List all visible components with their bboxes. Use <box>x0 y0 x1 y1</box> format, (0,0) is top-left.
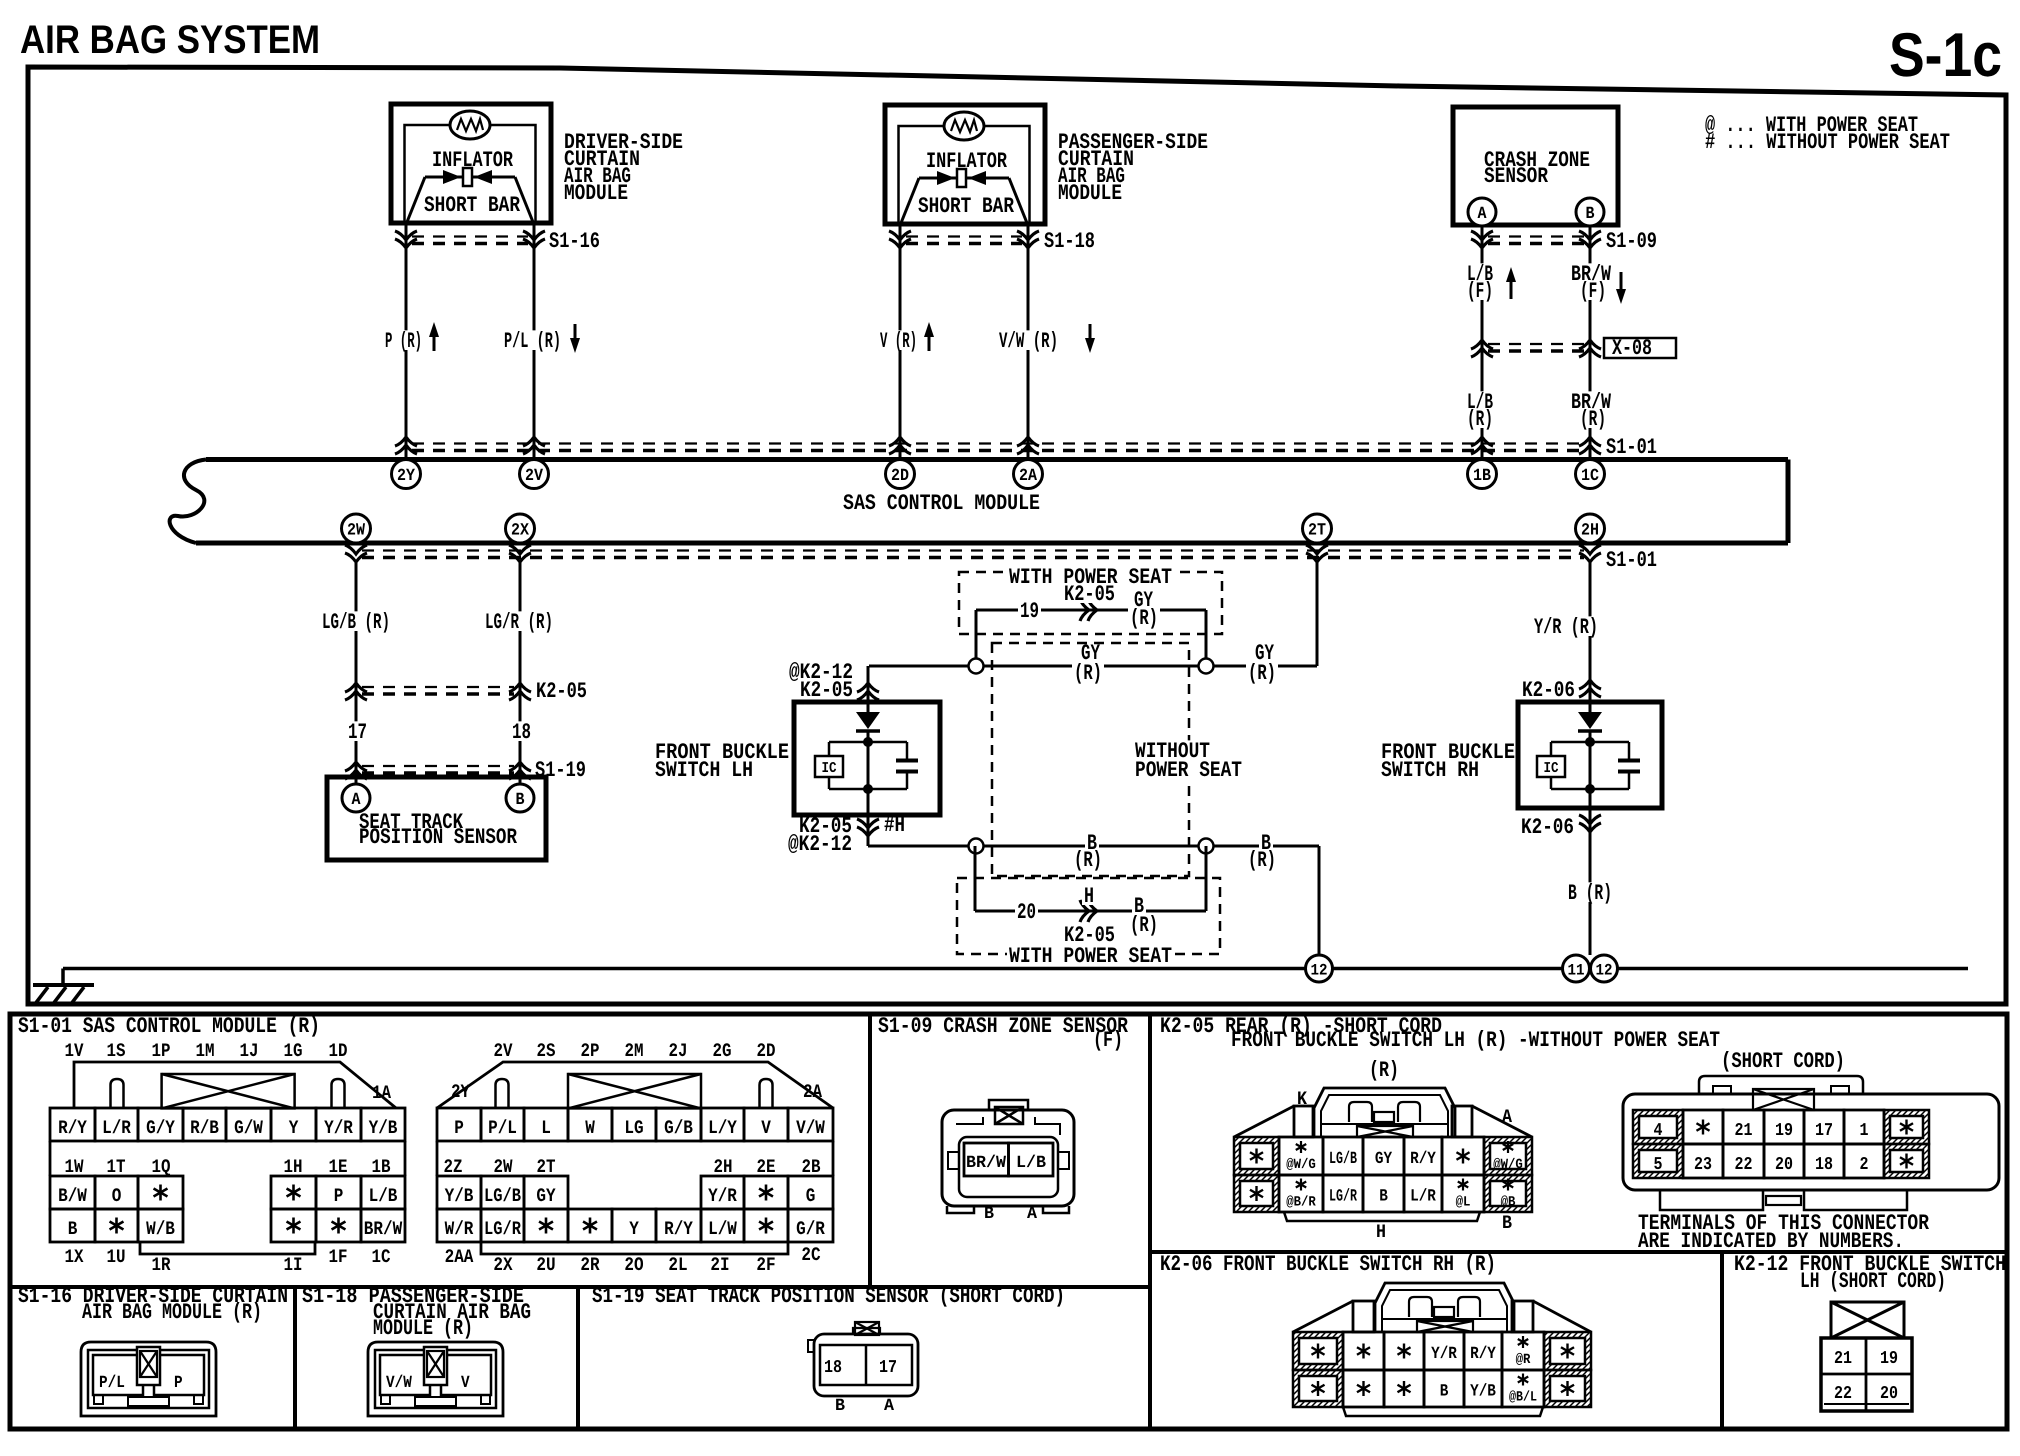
seat track position sensor <box>327 777 546 860</box>
svg-text:S1-01: S1-01 <box>1606 435 1657 460</box>
svg-text:SHORT BAR: SHORT BAR <box>918 194 1015 219</box>
wire label L/B (F) with up arrow <box>1465 262 1516 304</box>
ground node 12 <box>1306 955 1333 982</box>
K2-05 panel header <box>1160 1014 1720 1053</box>
svg-text:2I: 2I <box>710 1254 729 1276</box>
svg-text:2A: 2A <box>803 1081 822 1103</box>
S1-18 connector drawing <box>368 1342 503 1416</box>
SAS pin 2Y <box>392 460 421 489</box>
svg-text:LG/R (R): LG/R (R) <box>485 610 553 635</box>
svg-text:(R): (R) <box>1369 1058 1399 1083</box>
svg-text:LG/B: LG/B <box>484 1185 521 1207</box>
svg-text:L/R: L/R <box>1410 1188 1436 1207</box>
svg-text:1V: 1V <box>65 1040 84 1062</box>
SAS pin 2V <box>520 460 549 489</box>
svg-text:S-1c: S-1c <box>1889 21 2002 90</box>
wire 20 B with power seat <box>975 846 1206 938</box>
ground bus wire <box>63 967 1968 971</box>
svg-text:#H: #H <box>884 813 905 838</box>
svg-text:SHORT BAR: SHORT BAR <box>424 193 521 218</box>
ground nodes 11 and 12 <box>1563 955 1618 982</box>
connector K2-05 crossing at seat wires <box>345 679 587 704</box>
svg-text:18: 18 <box>1815 1155 1833 1175</box>
svg-text:R/Y: R/Y <box>58 1117 87 1139</box>
svg-text:ARE INDICATED BY NUMBERS.: ARE INDICATED BY NUMBERS. <box>1638 1229 1904 1254</box>
front buckle switch RH <box>1518 702 1662 808</box>
svg-text:LG/R: LG/R <box>1329 1188 1358 1207</box>
label K2-05 / WITH POWER SEAT bottom <box>1007 923 1174 969</box>
S1-16 connector drawing <box>81 1342 216 1416</box>
svg-text:WITH POWER SEAT: WITH POWER SEAT <box>1009 944 1172 969</box>
S1-19 connector drawing <box>808 1322 918 1416</box>
without power seat dashed box <box>992 643 1189 876</box>
SAS pin 2T <box>1303 514 1332 543</box>
svg-text:(R): (R) <box>1130 913 1158 938</box>
svg-text:X-08: X-08 <box>1612 336 1652 361</box>
svg-text:1J: 1J <box>240 1040 259 1062</box>
svg-text:SWITCH LH: SWITCH LH <box>655 758 753 783</box>
wire label P/L (R) with down arrow <box>502 324 580 354</box>
svg-text:@B/L: @B/L <box>1509 1390 1537 1406</box>
S1-01 connector 1 pin rows 2-3 <box>50 1176 405 1254</box>
svg-text:L/Y: L/Y <box>708 1117 737 1139</box>
svg-text:LG: LG <box>624 1117 643 1139</box>
svg-text:B: B <box>1440 1383 1449 1402</box>
svg-text:S1-01 SAS CONTROL MODULE (R): S1-01 SAS CONTROL MODULE (R) <box>18 1014 320 1039</box>
S1-01 connector 1 middle labels <box>50 1141 405 1178</box>
svg-text:K2-06: K2-06 <box>1521 815 1574 840</box>
connector X-08 crossing <box>1471 336 1676 361</box>
wire P/L(R) from driver module pin 2 <box>533 223 536 459</box>
svg-text:2H: 2H <box>1581 522 1599 541</box>
svg-text:4: 4 <box>1654 1121 1663 1141</box>
SAS pin 1C <box>1576 460 1605 489</box>
svg-text:S1-09: S1-09 <box>1606 229 1657 254</box>
label passenger-side curtain air bag module <box>1058 130 1208 206</box>
svg-text:B/W: B/W <box>58 1185 87 1207</box>
svg-text:H: H <box>1084 884 1094 909</box>
connector S1-18 crossing <box>889 229 1095 254</box>
svg-text:1M: 1M <box>196 1040 215 1062</box>
svg-text:K: K <box>1297 1088 1308 1110</box>
svg-text:@B: @B <box>1501 1195 1516 1211</box>
svg-text:H: H <box>1376 1221 1386 1243</box>
S1-09 panel header <box>878 1014 1129 1053</box>
junction node B right <box>1199 839 1214 854</box>
svg-text:V/W: V/W <box>796 1117 825 1139</box>
svg-text:V (R): V (R) <box>880 329 917 354</box>
svg-text:POWER SEAT: POWER SEAT <box>1135 758 1242 783</box>
wire label BR/W (F) with down arrow <box>1569 262 1626 304</box>
svg-text:R/Y: R/Y <box>1470 1345 1496 1364</box>
svg-text:A: A <box>1502 1106 1513 1128</box>
svg-text:21: 21 <box>1834 1349 1852 1369</box>
connector S1-19 crossing <box>345 758 586 783</box>
SAS pin 2X <box>506 514 535 543</box>
svg-text:11: 11 <box>1568 962 1585 980</box>
svg-text:2D: 2D <box>891 467 909 486</box>
svg-text:K2-05: K2-05 <box>800 678 853 703</box>
svg-text:A: A <box>884 1397 895 1416</box>
svg-text:2AA: 2AA <box>445 1246 474 1268</box>
svg-text:20: 20 <box>1017 900 1036 925</box>
wire label V/W (R) with down arrow <box>997 324 1095 354</box>
junction node B left <box>969 839 984 854</box>
svg-text:L: L <box>541 1117 551 1139</box>
svg-text:Y/B: Y/B <box>369 1117 398 1139</box>
wire label BR/W (R) <box>1569 390 1613 432</box>
svg-text:LG/R: LG/R <box>484 1218 521 1240</box>
wire label LG/R (R) <box>483 611 555 631</box>
wire label L/B (R) <box>1465 390 1495 432</box>
svg-text:Y: Y <box>289 1117 299 1139</box>
svg-text:V: V <box>461 1374 470 1393</box>
label WITH POWER SEAT top <box>1007 565 1174 607</box>
svg-text:V: V <box>761 1117 771 1139</box>
S1-18 panel header <box>302 1284 531 1341</box>
svg-text:19: 19 <box>1880 1349 1898 1369</box>
wire label B (R) mid <box>1072 831 1104 873</box>
svg-text:1D: 1D <box>329 1040 348 1062</box>
svg-text:LH (SHORT CORD): LH (SHORT CORD) <box>1800 1269 1946 1294</box>
label driver-side curtain air bag module <box>564 130 683 206</box>
svg-text:BR/W: BR/W <box>966 1154 1007 1173</box>
svg-text:W: W <box>585 1117 595 1139</box>
S1-01 connector 1 pin labels bottom <box>65 1246 391 1276</box>
wire B(R) down to ground node 12 <box>1318 846 1321 955</box>
svg-text:(R): (R) <box>1074 848 1102 873</box>
svg-text:1I: 1I <box>284 1254 303 1276</box>
svg-text:2L: 2L <box>668 1254 687 1276</box>
svg-text:2X: 2X <box>493 1254 513 1276</box>
svg-text:B: B <box>1502 1212 1512 1234</box>
wire label P (R) with up arrow <box>383 322 439 354</box>
connector S1-09 crossing <box>1471 229 1657 254</box>
svg-text:R/Y: R/Y <box>664 1218 693 1240</box>
svg-text:(R): (R) <box>1248 848 1276 873</box>
S1-01 connector 2 pin labels bottom <box>445 1244 821 1276</box>
S1-01 connector 1 pin row 1 <box>50 1108 405 1141</box>
K2-05 rear connector drawing <box>1234 1058 1532 1243</box>
connector S1-01 lower crossing <box>345 545 1657 573</box>
svg-text:2T: 2T <box>1308 522 1326 541</box>
svg-text:P: P <box>174 1374 183 1393</box>
passenger-side curtain air bag module <box>885 105 1045 224</box>
svg-text:20: 20 <box>1775 1155 1793 1175</box>
svg-text:LG/B (R): LG/B (R) <box>322 610 390 635</box>
svg-text:1F: 1F <box>329 1246 348 1268</box>
wire BR/W from crash sensor pin B <box>1589 226 1592 459</box>
connector K2-06 below switch RH <box>1521 791 1601 955</box>
svg-text:1A: 1A <box>372 1082 391 1104</box>
wire label GY (R) mid <box>1072 641 1104 686</box>
svg-text:2: 2 <box>1860 1155 1869 1175</box>
svg-text:P/L (R): P/L (R) <box>504 329 561 354</box>
svg-text:21: 21 <box>1735 1121 1753 1141</box>
svg-text:2V: 2V <box>494 1040 513 1062</box>
connector K2-05 #H below switch LH <box>788 791 905 857</box>
legend with/without power seat <box>1705 113 1950 155</box>
svg-text:1: 1 <box>1860 1121 1869 1141</box>
wire label Y/R (R) <box>1532 616 1600 636</box>
svg-text:(F): (F) <box>1467 279 1493 304</box>
svg-text:2W: 2W <box>347 522 366 541</box>
svg-text:B: B <box>1586 205 1595 224</box>
svg-text:B (R): B (R) <box>1568 881 1612 906</box>
svg-text:2J: 2J <box>669 1040 688 1062</box>
svg-text:P/L: P/L <box>99 1374 125 1393</box>
svg-text:AIR BAG MODULE (R): AIR BAG MODULE (R) <box>82 1300 262 1325</box>
svg-text:MODULE: MODULE <box>564 181 628 206</box>
svg-text:18: 18 <box>824 1358 842 1378</box>
S1-01 connector 2 pin labels top <box>494 1040 776 1062</box>
svg-text:2F: 2F <box>756 1254 775 1276</box>
svg-text:Y/R: Y/R <box>1431 1345 1457 1364</box>
svg-text:2Y: 2Y <box>451 1081 470 1103</box>
svg-text:@L: @L <box>1456 1195 1471 1211</box>
wire label GY (R) right <box>1246 641 1278 686</box>
junction node GY left <box>969 659 984 674</box>
label WITHOUT POWER SEAT <box>1133 739 1244 783</box>
wire into front buckle switch LH <box>867 666 870 712</box>
svg-text:2O: 2O <box>624 1254 643 1276</box>
with power seat dashed box top <box>959 572 1222 634</box>
svg-text:S1-01: S1-01 <box>1606 548 1657 573</box>
svg-text:2S: 2S <box>537 1040 556 1062</box>
svg-text:Y/B: Y/B <box>445 1185 474 1207</box>
svg-text:K2-06: K2-06 <box>1522 678 1575 703</box>
svg-text:G/R: G/R <box>796 1218 825 1240</box>
svg-text:V/W (R): V/W (R) <box>999 329 1058 354</box>
terminal label 17 <box>346 721 369 741</box>
svg-text:SWITCH RH: SWITCH RH <box>1381 758 1479 783</box>
svg-text:22: 22 <box>1834 1384 1852 1404</box>
svg-text:1P: 1P <box>152 1040 171 1062</box>
wire from SAS pin 2T down <box>1316 562 1319 666</box>
wire Y/R(R) from SAS pin 2H <box>1589 562 1592 712</box>
wire GY(R) horizontal run <box>869 665 1317 668</box>
svg-text:1B: 1B <box>1473 467 1491 486</box>
svg-text:1C: 1C <box>372 1246 391 1268</box>
svg-text:S1-16: S1-16 <box>549 229 600 254</box>
svg-text:FRONT BUCKLE SWITCH LH (R) -W: FRONT BUCKLE SWITCH LH (R) -WITHOUT POWE… <box>1231 1028 1720 1053</box>
wire LG/R(R) from SAS pin 2X <box>519 562 522 783</box>
svg-text:(R): (R) <box>1130 606 1158 631</box>
svg-text:GY: GY <box>1375 1150 1393 1169</box>
svg-text:1R: 1R <box>152 1254 171 1276</box>
svg-text:P/L: P/L <box>488 1117 517 1139</box>
svg-text:G/B: G/B <box>664 1117 693 1139</box>
svg-text:Y: Y <box>629 1218 639 1240</box>
svg-text:SENSOR: SENSOR <box>1484 164 1549 189</box>
svg-text:1G: 1G <box>284 1040 303 1062</box>
svg-text:2X: 2X <box>511 522 530 541</box>
S1-01 connector 2 middle labels <box>437 1141 833 1178</box>
svg-text:1X: 1X <box>65 1246 84 1268</box>
svg-text:L/B: L/B <box>369 1185 398 1207</box>
svg-text:L/R: L/R <box>102 1117 131 1139</box>
svg-text:20: 20 <box>1880 1384 1898 1404</box>
svg-text:2G: 2G <box>713 1040 732 1062</box>
svg-text:(R): (R) <box>1467 407 1493 432</box>
crash zone sensor <box>1453 107 1618 226</box>
svg-text:2C: 2C <box>801 1244 820 1266</box>
with power seat dashed box bottom <box>957 878 1220 954</box>
wire V/W(R) from passenger module pin 2 <box>1027 224 1030 459</box>
svg-text:G/W: G/W <box>234 1117 263 1139</box>
svg-text:@B/R: @B/R <box>1286 1195 1316 1211</box>
connector K2-05/K2-12 above front buckle switch LH <box>789 660 879 703</box>
ground symbol <box>33 969 94 1005</box>
junction node GY right <box>1199 659 1214 674</box>
label front buckle switch RH <box>1381 740 1515 783</box>
svg-text:MODULE (R): MODULE (R) <box>373 1316 473 1341</box>
connector S1-16 crossing <box>395 229 600 254</box>
svg-text:(SHORT CORD): (SHORT CORD) <box>1721 1049 1845 1074</box>
wire 19 GY with power seat <box>976 588 1206 666</box>
svg-text:1S: 1S <box>107 1040 126 1062</box>
K2-06 connector drawing <box>1293 1283 1591 1416</box>
svg-text:POSITION SENSOR: POSITION SENSOR <box>359 825 518 850</box>
svg-text:R/B: R/B <box>190 1117 219 1139</box>
SAS pin 1B <box>1468 460 1497 489</box>
svg-text:IC: IC <box>822 760 837 777</box>
svg-text:BR/W: BR/W <box>364 1218 403 1240</box>
driver-side curtain air bag module <box>391 104 551 223</box>
svg-text:MODULE: MODULE <box>1058 181 1122 206</box>
svg-text:Y/R: Y/R <box>324 1117 353 1139</box>
svg-text:Y/B: Y/B <box>1470 1383 1496 1402</box>
svg-text:@R: @R <box>1516 1352 1531 1368</box>
S1-09 connector drawing <box>942 1100 1074 1224</box>
svg-text:W/R: W/R <box>445 1218 474 1240</box>
svg-text:22: 22 <box>1735 1155 1753 1175</box>
svg-text:1U: 1U <box>107 1246 126 1268</box>
svg-text:O: O <box>112 1185 122 1207</box>
svg-text:19: 19 <box>1020 599 1039 624</box>
svg-text:A: A <box>352 791 362 810</box>
svg-text:(F): (F) <box>1093 1028 1123 1053</box>
svg-text:L/W: L/W <box>708 1218 737 1240</box>
connector detail panel frame <box>10 1014 2007 1429</box>
svg-text:@W/G: @W/G <box>1286 1157 1316 1173</box>
connector K2-06 above switch RH <box>1522 678 1601 703</box>
wire LG/B(R) from SAS pin 2W <box>355 562 358 783</box>
wire label B (R) right <box>1246 831 1278 873</box>
svg-text:A: A <box>1478 205 1488 224</box>
svg-text:2D: 2D <box>757 1040 776 1062</box>
K2-05 short cord connector drawing <box>1623 1049 1999 1254</box>
svg-text:B: B <box>835 1397 845 1416</box>
svg-text:17: 17 <box>879 1358 897 1378</box>
S1-01 connector 2 outline <box>437 1062 833 1108</box>
svg-text:(R): (R) <box>1074 661 1102 686</box>
svg-text:17: 17 <box>348 720 367 745</box>
svg-text:1C: 1C <box>1581 467 1599 486</box>
K2-12 connector drawing <box>1821 1302 1912 1411</box>
svg-text:A: A <box>1027 1205 1038 1224</box>
svg-text:B: B <box>68 1218 78 1240</box>
svg-text:(R): (R) <box>1248 661 1276 686</box>
svg-text:2M: 2M <box>625 1040 644 1062</box>
svg-text:S1-18: S1-18 <box>1044 229 1095 254</box>
S1-01 connector 2 pin rows 2-3 <box>437 1176 833 1254</box>
svg-text:Y/R (R): Y/R (R) <box>1534 615 1598 640</box>
svg-text:(R): (R) <box>1580 407 1606 432</box>
svg-text:G/Y: G/Y <box>146 1117 175 1139</box>
label front buckle switch LH <box>655 740 789 783</box>
svg-text:W/B: W/B <box>146 1218 175 1240</box>
svg-text:2Y: 2Y <box>397 467 416 486</box>
svg-text:Y/R: Y/R <box>708 1185 737 1207</box>
svg-text:R/Y: R/Y <box>1410 1150 1436 1169</box>
svg-text:2V: 2V <box>525 467 544 486</box>
svg-text:IC: IC <box>1544 760 1559 777</box>
wire label B (R) right column <box>1566 882 1614 902</box>
svg-text:AIR BAG SYSTEM: AIR BAG SYSTEM <box>20 18 320 62</box>
svg-text:GY: GY <box>536 1185 556 1207</box>
svg-text:(F): (F) <box>1580 279 1606 304</box>
svg-text:19: 19 <box>1775 1121 1793 1141</box>
wire B(R) horizontal run <box>868 845 1319 848</box>
wire V(R) from passenger module pin 1 <box>899 224 902 459</box>
svg-text:@K2-12: @K2-12 <box>788 832 852 857</box>
svg-text:SAS CONTROL MODULE: SAS CONTROL MODULE <box>843 491 1040 516</box>
svg-text:S1-09 CRASH ZONE SENSOR: S1-09 CRASH ZONE SENSOR <box>878 1014 1129 1039</box>
svg-text:12: 12 <box>1596 962 1613 980</box>
svg-text:# ... WITHOUT POWER SEAT: # ... WITHOUT POWER SEAT <box>1705 130 1950 155</box>
SAS pin 2W <box>342 514 371 543</box>
svg-text:5: 5 <box>1654 1155 1663 1175</box>
svg-text:P: P <box>454 1117 464 1139</box>
S1-01 connector 2 pin row 1 <box>437 1108 833 1141</box>
svg-text:18: 18 <box>512 720 531 745</box>
SAS pin 2H <box>1576 514 1605 543</box>
svg-text:B: B <box>984 1205 994 1224</box>
connector S1-01 upper crossing <box>395 435 1657 460</box>
svg-text:2A: 2A <box>1019 467 1038 486</box>
svg-text:LG/B: LG/B <box>1329 1150 1357 1169</box>
K2-12 panel header <box>1734 1252 2006 1294</box>
svg-text:P: P <box>334 1185 344 1207</box>
wire P(R) from driver module pin 1 <box>405 223 408 459</box>
svg-text:K2-06 FRONT BUCKLE SWITCH RH (: K2-06 FRONT BUCKLE SWITCH RH (R) <box>1160 1252 1496 1277</box>
svg-text:K2-05: K2-05 <box>1064 582 1115 607</box>
S1-16 panel header <box>18 1284 288 1325</box>
SAS pin 2D <box>886 460 915 489</box>
svg-text:@W/G: @W/G <box>1493 1157 1523 1173</box>
svg-text:2U: 2U <box>536 1254 555 1276</box>
svg-text:G: G <box>806 1185 816 1207</box>
svg-text:V/W: V/W <box>386 1374 412 1393</box>
wire label LG/B (R) <box>320 611 392 631</box>
front buckle switch LH <box>794 702 940 815</box>
S1-01 connector 1 pin labels top <box>65 1040 348 1062</box>
svg-text:K2-05: K2-05 <box>536 679 587 704</box>
terminal label 18 <box>510 721 533 741</box>
S1-01 connector 1 outline <box>74 1062 396 1108</box>
svg-text:12: 12 <box>1311 962 1328 980</box>
svg-text:P (R): P (R) <box>385 329 422 354</box>
wire label V (R) with up arrow <box>878 322 934 354</box>
svg-text:2R: 2R <box>580 1254 600 1276</box>
svg-text:L/B: L/B <box>1016 1154 1046 1173</box>
SAS pin 2A <box>1014 460 1043 489</box>
svg-text:S1-19 SEAT TRACK POSITION SENS: S1-19 SEAT TRACK POSITION SENSOR (SHORT … <box>592 1284 1065 1309</box>
svg-text:B: B <box>516 791 525 810</box>
svg-text:B: B <box>1379 1188 1388 1207</box>
wire L/B from crash sensor pin A <box>1481 226 1484 459</box>
